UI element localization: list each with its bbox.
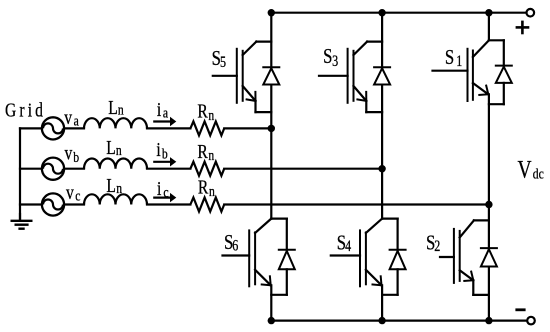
svg-text:n: n: [208, 107, 214, 124]
current arrow ic: [154, 193, 176, 202]
svg-text:4: 4: [345, 239, 351, 256]
wire resistor to leg a: [224, 127, 271, 129]
node phase a junction: [268, 125, 275, 132]
resistor Rn phase a: [190, 121, 224, 135]
wire source to inductor a: [64, 127, 84, 129]
svg-text:i: i: [157, 98, 161, 120]
svg-text:v: v: [65, 142, 73, 164]
svg-text:n: n: [116, 141, 122, 158]
svg-text:1: 1: [456, 54, 462, 71]
wire S1 collector jog to diode: [489, 40, 504, 65]
resistor Rn phase b: [190, 162, 224, 176]
wire leg3 (phase c node to bottom rail): [488, 205, 490, 321]
wire top DC rail: [271, 12, 526, 14]
node leg1 bottom rail: [268, 317, 275, 324]
svg-text:R: R: [197, 140, 207, 162]
svg-text:S: S: [445, 46, 454, 69]
label ib: [156, 138, 168, 162]
wire leg2 lower (S4 emitter to bottom rail): [381, 285, 383, 320]
wire leg1 lower (S6 emitter to bottom rail): [270, 285, 272, 320]
wire leg2 upper (rail to phase b node): [381, 13, 383, 169]
wire resistor to leg c: [224, 203, 489, 205]
label Rn phase b: [197, 140, 214, 163]
svg-text:2: 2: [434, 239, 440, 256]
svg-text:b: b: [73, 149, 79, 166]
svg-text:6: 6: [232, 238, 238, 255]
label + sign: [517, 22, 528, 33]
wire bus to source vb: [20, 168, 42, 170]
wire inductor to resistor c: [147, 203, 190, 205]
svg-text:L: L: [108, 96, 118, 118]
svg-text:3: 3: [332, 54, 338, 71]
label Ln phase b: [106, 136, 122, 158]
svg-text:c: c: [163, 183, 168, 200]
ac source vc: [42, 193, 64, 215]
svg-text:c: c: [75, 187, 80, 204]
igbt S1: [433, 40, 489, 101]
wire inductor to resistor a: [147, 127, 190, 129]
label Ln phase c: [106, 174, 122, 196]
diode D6 (antiparallel with S6): [279, 250, 295, 269]
svg-text:i: i: [156, 138, 160, 160]
ac source va: [42, 117, 64, 139]
label va: [64, 106, 79, 129]
label S1: [445, 46, 462, 71]
label Ln phase a: [108, 96, 124, 118]
wire D4 bottom to leg2: [382, 269, 398, 295]
svg-text:R: R: [198, 176, 208, 198]
label vb: [65, 142, 80, 166]
current arrow ib: [154, 157, 176, 166]
svg-text:dc: dc: [533, 165, 544, 182]
diode D4 (antiparallel with S4): [390, 250, 406, 269]
label vc: [66, 181, 80, 204]
diode D2 (antiparallel with S2): [481, 248, 497, 266]
wire leg1 upper (rail to phase a node): [270, 13, 272, 129]
svg-text:L: L: [106, 174, 116, 196]
label Grid: [5, 99, 46, 121]
node leg1 top rail: [268, 9, 275, 16]
label S6: [224, 231, 238, 255]
label Rn phase c: [198, 176, 215, 200]
terminal - circle: [527, 317, 535, 325]
svg-text:a: a: [163, 104, 168, 121]
svg-text:V: V: [518, 155, 532, 183]
label ic: [157, 177, 169, 200]
wire D6 bottom to leg1: [271, 269, 287, 295]
label S2: [426, 232, 440, 256]
wire bus to source va: [20, 127, 42, 129]
svg-text:b: b: [162, 145, 168, 162]
wire source to inductor c: [64, 203, 84, 205]
svg-text:a: a: [74, 112, 79, 129]
wire leg1 middle (phase a node to S6): [270, 128, 272, 218]
ground: [12, 214, 32, 229]
wire leg3 upper (rail to S1 collector): [488, 13, 490, 41]
svg-text:5: 5: [220, 55, 226, 72]
diode D5 (antiparallel with S5): [263, 67, 279, 84]
label Vdc: [518, 155, 544, 183]
node leg2 bottom rail: [378, 317, 385, 324]
wire leg2 middle (phase b node to S4): [381, 169, 383, 219]
svg-text:n: n: [116, 180, 122, 197]
node phase b junction: [378, 165, 385, 172]
svg-text:n: n: [209, 183, 215, 200]
node leg2 top rail: [378, 9, 385, 16]
diode D3 (antiparallel with S3): [374, 67, 390, 84]
svg-text:v: v: [66, 181, 74, 203]
wire S4 collector jog to diode: [382, 219, 398, 250]
wire D1 bottom to leg3: [489, 83, 504, 104]
inductor Ln phase b: [84, 158, 147, 168]
svg-text:S: S: [323, 45, 332, 68]
wire inductor to resistor b: [147, 168, 190, 170]
wire bottom DC rail: [271, 320, 527, 322]
label S3: [323, 45, 338, 70]
svg-text:L: L: [106, 136, 116, 158]
resistor Rn phase c: [190, 198, 224, 212]
node leg3 bottom rail: [485, 317, 492, 324]
wire S6 collector jog to diode: [271, 219, 287, 250]
igbt S3: [319, 42, 382, 113]
ac source vb: [42, 158, 64, 180]
wire source to inductor b: [64, 168, 84, 170]
label Rn phase a: [197, 100, 214, 123]
wire grid bus vertical: [19, 128, 21, 220]
inductor Ln phase a: [84, 118, 147, 128]
wire bus to source vc: [20, 203, 42, 205]
label - sign: [517, 308, 524, 311]
node leg3 top rail: [485, 9, 492, 16]
diode D1 (antiparallel with S1): [496, 66, 512, 83]
igbt S6: [223, 219, 272, 287]
svg-text:n: n: [118, 101, 124, 118]
igbt S4: [331, 219, 382, 287]
wire resistor to leg b: [224, 168, 382, 170]
svg-text:i: i: [157, 177, 161, 199]
current arrow ia: [154, 117, 176, 126]
svg-text:v: v: [64, 106, 72, 128]
svg-text:R: R: [197, 100, 207, 122]
node phase c junction: [485, 201, 492, 208]
label S5: [212, 47, 226, 71]
label S4: [337, 232, 351, 256]
igbt S2: [440, 220, 489, 295]
inductor Ln phase c: [84, 194, 147, 204]
label ia: [157, 98, 168, 121]
wire leg3 middle (S1 emitter to phase c node): [488, 94, 490, 204]
svg-text:n: n: [208, 147, 214, 164]
terminal + circle: [527, 9, 535, 17]
svg-text:Grid: Grid: [5, 99, 46, 121]
igbt S5: [213, 42, 271, 113]
